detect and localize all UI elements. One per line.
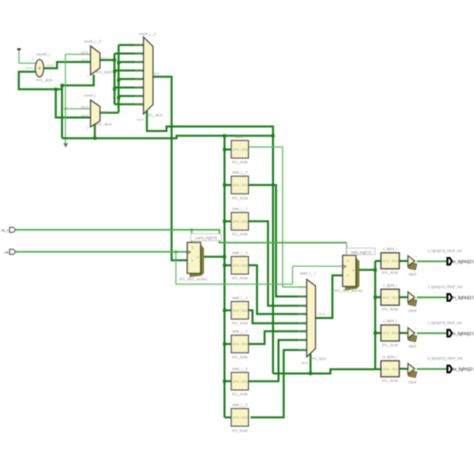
svg-text:O[2:0]: O[2:0] — [241, 184, 248, 187]
svg-text:RTL_ROM: RTL_ROM — [232, 196, 248, 200]
svg-text:O[2:0]: O[2:0] — [241, 148, 248, 151]
svg-text:RTL_REG_ASYNC: RTL_REG_ASYNC — [335, 289, 364, 293]
svg-text:I1[3:0]: I1[3:0] — [81, 114, 88, 118]
svg-text:A[3:0]: A[3:0] — [233, 343, 240, 346]
svg-text:s_lights_i: s_lights_i — [383, 319, 397, 323]
wire count_reg Q to spine — [202, 256, 224, 258]
svg-text:S: S — [87, 74, 89, 78]
wire select distribution bottom row — [273, 369, 375, 373]
svg-text:state_i__1: state_i__1 — [232, 207, 247, 211]
svg-text:A[3:0]: A[3:0] — [233, 184, 240, 187]
svg-text:I3[2:0]: I3[2:0] — [298, 312, 305, 316]
svg-text:O[3:0]: O[3:0] — [101, 56, 108, 60]
svg-text:state_reg[2:0]: state_reg[2:0] — [351, 250, 371, 254]
svg-text:count_i__0: count_i__0 — [84, 40, 102, 44]
ROM state_i__1 — [231, 207, 248, 237]
svg-text:rst_n: rst_n — [1, 228, 9, 232]
svg-text:RTL_MUX: RTL_MUX — [147, 113, 164, 117]
wire rst_n net — [16, 230, 347, 256]
svg-text:RTL_ROM: RTL_ROM — [382, 271, 398, 275]
svg-text:O[2:0]: O[2:0] — [241, 343, 248, 346]
wire state_reg Q vertical feeding lights ROMs — [375, 261, 381, 369]
wire mux count_i select — [94, 124, 96, 139]
svg-text:O[2:0]: O[2:0] — [391, 260, 398, 263]
svg-text:O[2:0]: O[2:0] — [318, 312, 325, 316]
svg-text:state_i__3: state_i__3 — [232, 296, 247, 300]
svg-text:I1[2:0]: I1[2:0] — [298, 295, 305, 299]
svg-text:RTL_ROM: RTL_ROM — [232, 233, 248, 237]
svg-text:RTL_MUX: RTL_MUX — [96, 70, 113, 74]
wire state_i__0 output to state_i__7 I1 — [249, 185, 307, 297]
wire state_i__5 output to state_i__7 I6 — [249, 340, 307, 381]
svg-text:O[2:0]: O[2:0] — [241, 220, 248, 223]
OBUF n_lights[2:0]_OBUF_inst — [408, 285, 462, 313]
svg-text:n_lights[2:0]: n_lights[2:0] — [453, 295, 474, 300]
ROM state_i__6 — [231, 403, 248, 433]
svg-text:A[2:0]: A[2:0] — [383, 296, 390, 299]
ROM s_lights_i — [381, 319, 399, 347]
wire adder output to mux count_i__0 I1 — [44, 62, 91, 68]
ROM e_lights_i — [381, 247, 399, 275]
OBUF e_lights[2:0]_OBUF_inst — [408, 249, 462, 277]
svg-text:O[2:0]: O[2:0] — [391, 368, 398, 371]
output port e_lights[2:0] — [447, 258, 474, 265]
node unconnected marker — [63, 143, 68, 147]
svg-text:A[3:0]: A[3:0] — [233, 309, 240, 312]
wire bus V1 vertical feeding count_i__1 inputs I1 I3 I5 I7 — [115, 54, 144, 105]
wire state_i output to state_i__7 I0 — [249, 147, 307, 287]
svg-text:e_lights_i: e_lights_i — [383, 247, 397, 251]
wire state_i__6 output to state_i__7 I7 — [251, 350, 307, 417]
svg-text:OBUF: OBUF — [408, 309, 417, 313]
svg-text:I0[3:0]: I0[3:0] — [135, 43, 142, 47]
wire light vertical net with tap to mux I0 inputs — [65, 54, 90, 143]
wire clk net — [16, 252, 343, 284]
wire count_i__1 output to count_reg D — [153, 77, 187, 260]
svg-text:A[2:0]: A[2:0] — [383, 332, 390, 335]
svg-text:A[3:0]: A[3:0] — [233, 264, 240, 267]
svg-text:RTL_MUX: RTL_MUX — [311, 357, 328, 361]
ROM n_lights_i — [381, 283, 399, 311]
input port clk — [5, 249, 16, 254]
svg-text:A[2:0]: A[2:0] — [383, 368, 390, 371]
svg-text:RTL_ROM: RTL_ROM — [382, 308, 398, 312]
ROM state_i__5 — [231, 367, 248, 397]
svg-text:O[2:0]: O[2:0] — [241, 264, 248, 267]
input port rst_n — [1, 227, 16, 232]
svg-text:RTL_ROM: RTL_ROM — [232, 393, 248, 397]
wire mux count_i output to bus V2 — [100, 112, 119, 114]
svg-text:I4[3:0]: I4[3:0] — [135, 77, 142, 81]
svg-text:I0[2:0]: I0[2:0] — [298, 285, 305, 289]
wire count_reg Q to mux count_i I1 — [56, 89, 91, 117]
svg-text:state_i__4: state_i__4 — [232, 330, 247, 334]
svg-text:state_i__7: state_i__7 — [300, 271, 317, 275]
output port w_lights[2:0] — [447, 366, 474, 373]
svg-text:S[2:0]: S[2:0] — [137, 117, 144, 121]
svg-text:I1[3:0]: I1[3:0] — [25, 66, 32, 70]
ROM state_i__4 — [231, 330, 248, 360]
svg-text:I5[3:0]: I5[3:0] — [135, 86, 142, 90]
svg-text:O[2:0]: O[2:0] — [241, 380, 248, 383]
ROM state_i__2 — [231, 251, 248, 281]
svg-text:count0_i: count0_i — [36, 53, 50, 57]
svg-text:state_i__5: state_i__5 — [232, 367, 247, 371]
wire state_i__2 output to state_i__7 I3 — [249, 265, 307, 314]
svg-text:C: C — [192, 245, 194, 249]
ROM state_i — [231, 135, 248, 165]
svg-text:I5[2:0]: I5[2:0] — [298, 329, 305, 333]
svg-text:I7[2:0]: I7[2:0] — [298, 348, 305, 352]
register count_reg[3:0] — [179, 234, 221, 282]
svg-text:O[3:0]: O[3:0] — [101, 110, 108, 114]
svg-text:OBUF: OBUF — [408, 273, 417, 277]
ROM w_lights_i — [381, 355, 399, 383]
svg-text:RTL_MUX: RTL_MUX — [96, 122, 113, 126]
svg-text:count_reg[3:0]: count_reg[3:0] — [196, 236, 217, 240]
register state_reg[2:0] — [335, 248, 375, 293]
svg-text:RTL_ROM: RTL_ROM — [382, 379, 398, 383]
svg-text:state_i__0: state_i__0 — [232, 171, 247, 175]
OBUF w_lights[2:0]_OBUF_inst — [408, 357, 463, 385]
svg-text:I2[2:0]: I2[2:0] — [298, 304, 305, 308]
svg-text:A[2:0]: A[2:0] — [383, 260, 390, 263]
wire mux select net S left column — [62, 75, 94, 138]
wire constant-1 to adder I0 — [19, 50, 35, 63]
svg-text:I1[3:0]: I1[3:0] — [81, 58, 88, 62]
svg-text:I0[3:0]: I0[3:0] — [81, 50, 88, 54]
mux state_i__7 — [298, 271, 327, 365]
svg-text:n_lights_i: n_lights_i — [383, 283, 397, 287]
OBUF s_lights[2:0]_OBUF_inst — [408, 321, 462, 349]
svg-text:e_lights[2:0]: e_lights[2:0] — [453, 259, 474, 264]
svg-text:e_lights[2:0]_OBUF_inst: e_lights[2:0]_OBUF_inst — [428, 249, 462, 253]
svg-text:I4[2:0]: I4[2:0] — [298, 321, 305, 325]
svg-text:D: D — [347, 274, 349, 277]
svg-text:A[3:0]: A[3:0] — [233, 417, 240, 420]
svg-text:A[3:0]: A[3:0] — [233, 380, 240, 383]
svg-text:A[3:0]: A[3:0] — [233, 220, 240, 223]
svg-text:OBUF: OBUF — [408, 380, 417, 384]
svg-text:S: S — [87, 126, 89, 130]
svg-text:I3[3:0]: I3[3:0] — [135, 69, 142, 73]
svg-text:RTL_ADD: RTL_ADD — [36, 79, 53, 83]
wire mux count_i__0 output to bus V1 — [100, 59, 115, 61]
adder count0_i — [25, 53, 53, 83]
output port s_lights[2:0] — [447, 330, 474, 337]
svg-text:state_i__6: state_i__6 — [232, 403, 247, 407]
svg-text:count_i: count_i — [84, 94, 96, 98]
svg-text:I6[3:0]: I6[3:0] — [135, 94, 142, 98]
svg-text:w_lights[2:0]: w_lights[2:0] — [453, 367, 474, 372]
svg-text:count_i__1: count_i__1 — [139, 32, 157, 36]
svg-text:s_lights[2:0]_OBUF_inst: s_lights[2:0]_OBUF_inst — [428, 321, 462, 325]
mux count_i__1 — [135, 32, 164, 121]
wire bus V2 vertical feeding count_i__1 inputs I0 I2 I4 I6 — [119, 45, 144, 113]
wire state_i__1 output to state_i__7 I2 — [249, 221, 307, 305]
wire count spine vertical feeding state ROMs — [225, 136, 232, 418]
wire lights ROM outputs to OBUFs — [399, 261, 408, 369]
svg-text:clk: clk — [5, 250, 9, 254]
svg-text:O[2:0]: O[2:0] — [241, 309, 248, 312]
output port n_lights[2:0] — [447, 294, 474, 301]
svg-text:Q: Q — [352, 269, 354, 272]
wire state_i__7 output to state_reg D — [316, 275, 343, 318]
svg-text:O[3:0]: O[3:0] — [46, 64, 53, 68]
svg-text:w_lights_i: w_lights_i — [383, 355, 398, 359]
svg-text:RTL_ROM: RTL_ROM — [382, 343, 398, 347]
svg-text:O[2:0]: O[2:0] — [391, 296, 398, 299]
svg-text:s_lights[2:0]: s_lights[2:0] — [453, 331, 474, 336]
wire state_i__3 output to state_i__7 I4 — [249, 310, 307, 323]
ROM state_i__0 — [231, 171, 248, 201]
wire select row Q — [62, 136, 273, 138]
wire count_i__1 select S row P — [147, 111, 273, 374]
svg-text:OBUF: OBUF — [408, 345, 417, 349]
wire state_i__4 output to state_i__7 I5 — [249, 331, 307, 344]
svg-text:O[3:0]: O[3:0] — [152, 72, 159, 76]
svg-text:A[3:0]: A[3:0] — [233, 148, 240, 151]
svg-text:state_i__2: state_i__2 — [232, 251, 247, 255]
constant 1 tie — [17, 48, 20, 50]
svg-text:I6[2:0]: I6[2:0] — [298, 338, 305, 342]
svg-text:n_lights[2:0]_OBUF_inst: n_lights[2:0]_OBUF_inst — [428, 285, 462, 289]
svg-text:RTL_REG_ASYNC: RTL_REG_ASYNC — [179, 278, 208, 282]
mux count_i__0 — [81, 40, 113, 78]
svg-text:I7[3:0]: I7[3:0] — [135, 102, 142, 106]
svg-text:w_lights[2:0]_OBUF_inst: w_lights[2:0]_OBUF_inst — [428, 357, 463, 361]
mux count_i — [81, 94, 113, 130]
svg-text:I0[3:0]: I0[3:0] — [81, 105, 88, 109]
svg-text:O[2:0]: O[2:0] — [241, 417, 248, 420]
svg-text:RTL_ROM: RTL_ROM — [232, 161, 248, 165]
wire state_i__7 select — [310, 353, 312, 374]
svg-text:D: D — [191, 259, 193, 262]
svg-text:O[2:0]: O[2:0] — [391, 332, 398, 335]
ROM state_i__3 — [231, 296, 248, 326]
svg-text:S[2:0]: S[2:0] — [301, 361, 308, 365]
svg-text:RTL_ROM: RTL_ROM — [232, 277, 248, 281]
svg-text:RTL_ROM: RTL_ROM — [232, 322, 248, 326]
svg-text:I1[3:0]: I1[3:0] — [135, 52, 142, 56]
svg-text:state_i: state_i — [235, 135, 245, 139]
wire state_reg Q output — [357, 269, 375, 271]
svg-text:C: C — [347, 258, 349, 262]
svg-text:RTL_ROM: RTL_ROM — [232, 429, 248, 433]
wire OBUF outputs to ports — [417, 261, 447, 369]
svg-text:RTL_ROM: RTL_ROM — [232, 355, 248, 359]
wire count feedback to adder I1 — [19, 72, 62, 90]
svg-text:Q: Q — [197, 256, 199, 259]
svg-text:I2[3:0]: I2[3:0] — [135, 60, 142, 64]
